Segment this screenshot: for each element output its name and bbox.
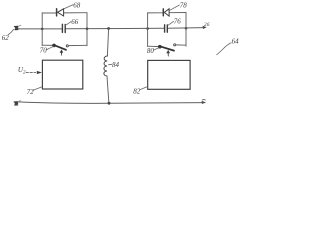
block 72 rectangle (transducer box): [42, 60, 82, 89]
wire right switch row right of contact: [176, 44, 186, 46]
switch 70 arm: [54, 45, 66, 50]
node rail start glyph (left end of main rail): [14, 26, 18, 29]
wire right cell left stub: [147, 13, 149, 47]
leader from 64 curved: [217, 43, 232, 55]
svg-text:78: 78: [180, 1, 188, 9]
switch 70 fixed contact circle: [66, 45, 68, 47]
leader from 82 to box corner: [140, 87, 148, 90]
wire center drop from main rail: [107, 29, 108, 56]
capacitor 76 left plate: [164, 25, 166, 32]
arrow actuation (up arrow under switch 80): [166, 50, 170, 53]
wire right cell diode rail right: [169, 12, 186, 14]
node C junction dot left stub of right cell: [146, 27, 149, 30]
node D junction dot right stub of right cell: [185, 27, 188, 30]
leader from 80 to pivot: [153, 48, 159, 50]
input arrowhead at box 72: [37, 71, 42, 74]
wire main rail middle segment: [66, 27, 164, 30]
switch 80 arm: [160, 46, 175, 50]
wire right switch row left of pivot: [148, 45, 160, 47]
leader from diode to label 68: [64, 5, 73, 9]
tail on bottom rail start glyph: [18, 101, 21, 102]
node bottom rail end arrowhead: [202, 101, 206, 104]
stem under up arrow 70: [61, 53, 63, 55]
leader from 72 to box corner: [33, 87, 42, 91]
wire right cell right stub: [185, 13, 187, 47]
switch 80 pivot dot: [158, 45, 162, 49]
switch 80 fixed contact circle: [174, 44, 176, 46]
svg-text:U2: U2: [18, 66, 26, 76]
node A junction dot left stub / rail: [41, 28, 44, 31]
svg-text:82: 82: [133, 88, 141, 96]
wire below inductor to bottom rail: [107, 76, 109, 103]
capacitor 66 right plate: [64, 24, 66, 32]
node B junction dot right stub of left cell: [86, 27, 89, 30]
capacitor 76 right plate: [166, 25, 168, 32]
leader from inductor to label 84: [109, 63, 112, 65]
label at bottom rail end: [202, 98, 205, 101]
svg-text:76: 76: [174, 18, 182, 26]
diode 78 triangle: [164, 9, 169, 16]
wire left cell left stub: [41, 13, 43, 46]
leader from capacitor to label 66: [65, 22, 71, 26]
svg-text:84: 84: [112, 61, 120, 69]
wire switch row right of contact: [68, 44, 87, 46]
leader from diode to label 78: [169, 5, 179, 11]
wire switch row left of pivot: [42, 44, 53, 46]
node junction dot bottom rail / center wire: [108, 102, 111, 105]
svg-text:80: 80: [147, 47, 155, 55]
arrow actuation (up arrow under switch 70): [60, 49, 64, 52]
block 82 rectangle (transducer box): [148, 60, 190, 89]
tail on rail start glyph: [18, 25, 21, 26]
svg-text:26: 26: [204, 22, 210, 28]
svg-text:72: 72: [27, 88, 35, 96]
stem under up arrow 80: [167, 53, 169, 56]
diode 78 cathode bar: [162, 9, 164, 16]
leader from 70 to pivot: [46, 46, 54, 50]
svg-text:64: 64: [232, 37, 240, 45]
wire main rail left segment: [18, 28, 62, 30]
switch 70 pivot dot: [52, 44, 56, 48]
diode 68 cathode bar: [56, 9, 58, 16]
node bottom rail start glyph: [14, 102, 18, 105]
wire left cell diode rail right: [64, 12, 87, 14]
wire main rail right segment: [168, 27, 204, 30]
svg-text:66: 66: [71, 18, 79, 26]
wire left cell diode rail left: [42, 12, 56, 14]
svg-text:68: 68: [73, 1, 81, 9]
leader from 62 to rail start: [8, 29, 14, 35]
inductor 84 coil: [104, 56, 108, 76]
diode 68 triangle: [58, 9, 64, 16]
wire left cell right stub: [86, 13, 88, 46]
wire bottom rail: [18, 102, 205, 103]
capacitor 66 left plate: [61, 24, 63, 32]
wire right cell diode rail left: [148, 12, 163, 14]
dashed input arrow line: [26, 72, 36, 74]
node center junction dot on main rail: [107, 27, 110, 30]
leader from capacitor to label 76: [168, 21, 174, 25]
node 26 arrowhead (right end of main rail): [203, 26, 207, 29]
